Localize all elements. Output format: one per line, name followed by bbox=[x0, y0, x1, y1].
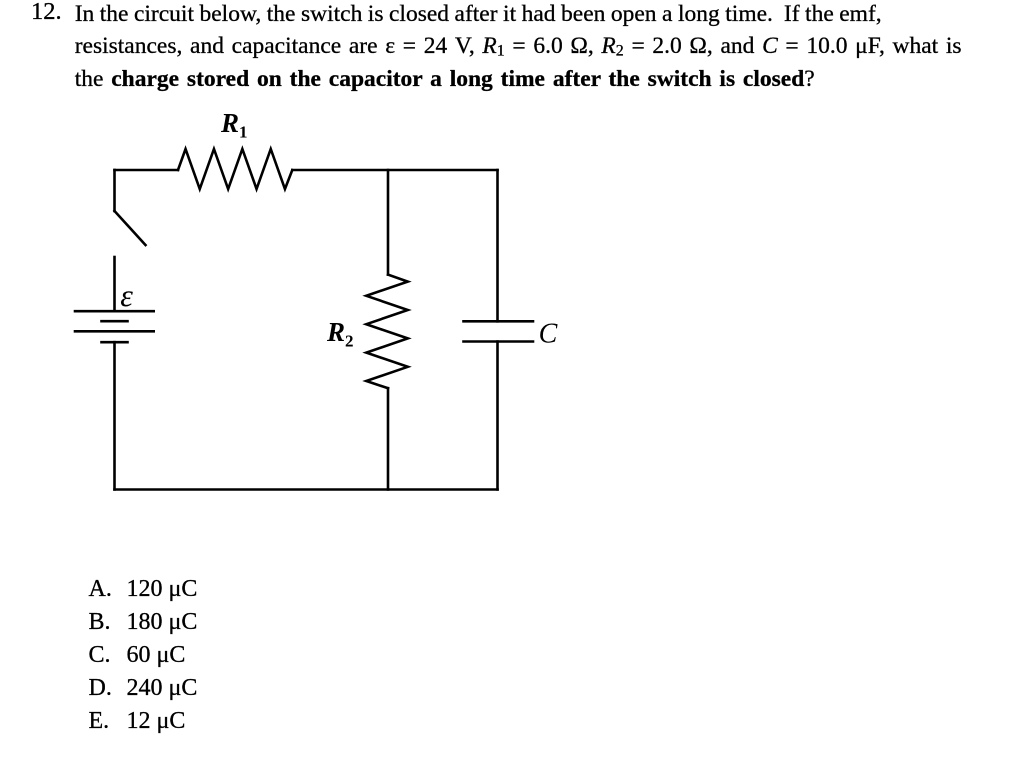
answer choice A bbox=[89, 577, 112, 601]
answer choice E bbox=[89, 709, 110, 733]
answer choice B bbox=[89, 610, 111, 634]
svg-text:R1: R1 bbox=[220, 108, 248, 142]
question line 3 bbox=[75, 68, 815, 92]
wire: switch lower terminal to battery bbox=[113, 257, 116, 311]
answer choice C bbox=[89, 643, 111, 667]
svg-text:ε: ε bbox=[120, 277, 133, 313]
wire: right branch upper vertical bbox=[496, 170, 499, 321]
wire: middle branch lower vertical bbox=[387, 388, 390, 489]
svg-text:C: C bbox=[539, 319, 558, 350]
question line 2 bbox=[75, 35, 962, 63]
wire: bottom horizontal segment bbox=[115, 488, 498, 491]
wire: battery bottom to bottom-left corner bbox=[113, 342, 116, 489]
switch S (open blade) bbox=[115, 211, 146, 245]
svg-text:R2: R2 bbox=[326, 317, 354, 351]
battery emf source bbox=[75, 311, 154, 342]
capacitor C bbox=[464, 321, 534, 341]
answer choice D bbox=[89, 676, 112, 700]
wire: top horizontal segment from R1 to top-right corner bbox=[292, 169, 497, 172]
wire: right branch lower vertical bbox=[496, 342, 499, 490]
resistor R1 bbox=[178, 149, 292, 189]
wire: middle branch upper vertical (junction at top wire) bbox=[387, 170, 390, 275]
resistor R2 bbox=[366, 275, 408, 389]
wire: left vertical segment from top-left corner to switch pivot bbox=[113, 170, 116, 211]
wire: top-left horizontal segment bbox=[115, 169, 179, 172]
question number bbox=[31, 0, 62, 23]
question line 1 bbox=[75, 3, 882, 27]
